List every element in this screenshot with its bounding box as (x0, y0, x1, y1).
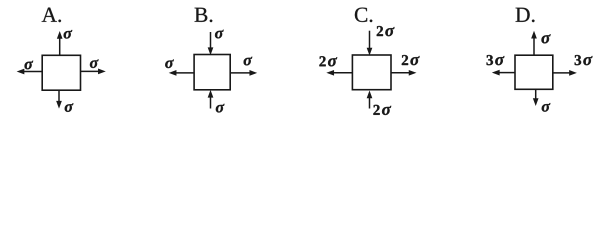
3-sigma label D left (487, 55, 493, 65)
square B (stress element) (194, 55, 230, 90)
arrow A bottom: sigma tension downward (57, 90, 61, 107)
arrow C bottom: 2-sigma compression upward (367, 92, 371, 109)
sigma label A left (25, 61, 34, 70)
arrow B top: sigma compression downward (208, 32, 212, 54)
square A (stress element) (42, 55, 80, 90)
sigma label A right (90, 59, 99, 68)
2-sigma label C bottom (373, 105, 379, 115)
square D (stress element) (515, 55, 553, 89)
arrow D bottom: sigma tension downward (534, 89, 538, 105)
arrow B bottom: sigma compression upward (208, 91, 212, 108)
arrow D left: 3-sigma tension leftward (493, 70, 515, 74)
arrow C right: 2-sigma tension rightward (391, 71, 415, 75)
arrow B right: sigma tension rightward (230, 71, 256, 75)
sigma label A top (64, 30, 73, 39)
square C (stress element) (352, 55, 391, 90)
sigma label B bottom (216, 104, 225, 113)
3-sigma label D right (575, 55, 581, 65)
sigma label B left (165, 59, 174, 68)
2-sigma label C left (319, 56, 325, 66)
label B. (195, 8, 208, 22)
label C. (355, 8, 367, 22)
arrow A left: sigma tension leftward (18, 69, 42, 73)
arrow D top: sigma tension upward (532, 32, 536, 55)
sigma label B top (215, 30, 224, 39)
sigma label D top (541, 34, 550, 43)
2-sigma label C top (377, 26, 383, 36)
arrow A right: sigma tension rightward (81, 69, 105, 73)
2-sigma label C right (402, 55, 408, 65)
arrow C left: 2-sigma tension leftward (328, 71, 353, 75)
arrow A top: sigma tension upward (58, 32, 62, 55)
sigma label D bottom (542, 103, 551, 112)
arrow D right: 3-sigma tension rightward (553, 71, 576, 75)
arrow B left: sigma tension leftward (170, 71, 194, 75)
label A. (42, 8, 57, 22)
sigma label B right (244, 57, 253, 66)
label D. (516, 8, 530, 22)
arrow C top: 2-sigma compression downward (367, 31, 371, 55)
sigma label A bottom (65, 103, 74, 112)
